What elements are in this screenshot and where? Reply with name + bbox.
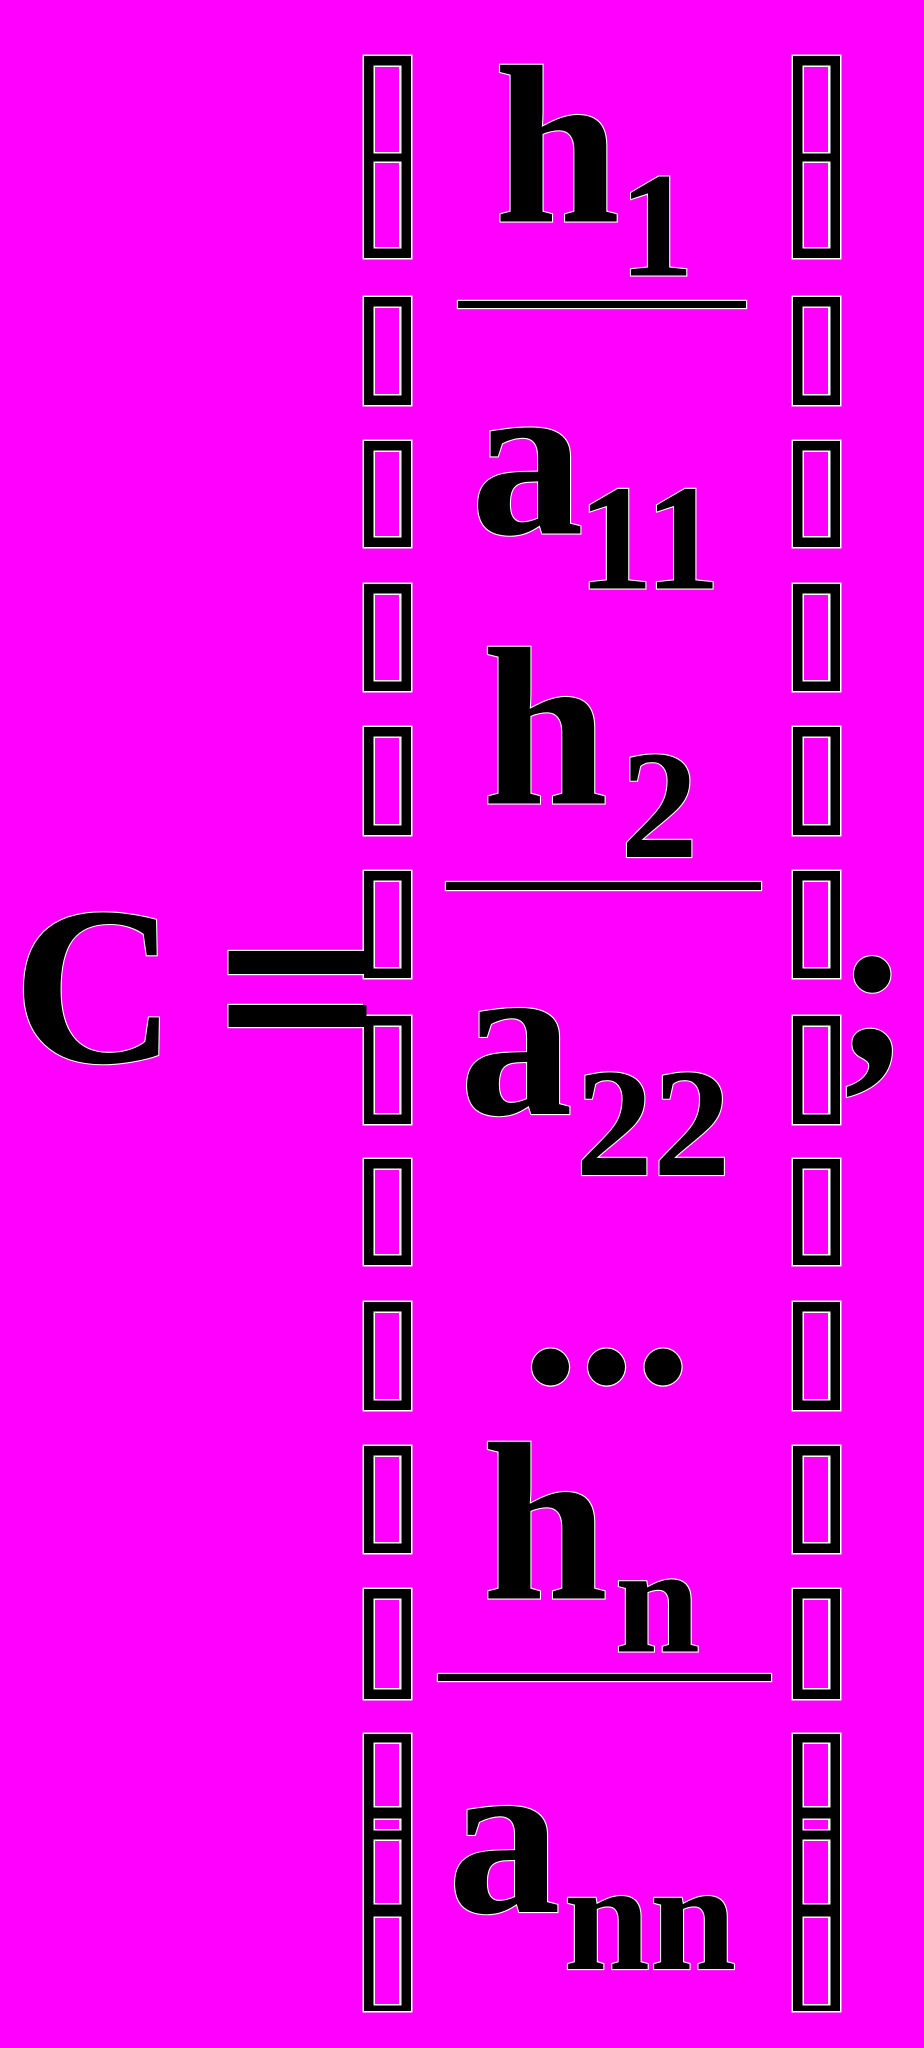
right bracket tofu box 10 (792, 1301, 842, 1412)
left bracket tofu boxes 1-2 (double) (363, 55, 413, 260)
svg-text:C: C (13, 861, 176, 1111)
left bracket bottom tofu stack (363, 1733, 413, 2013)
right bracket tofu box 4 (792, 440, 842, 549)
svg-text:2: 2 (621, 719, 699, 891)
ellipsis dot 2 (587, 1347, 626, 1386)
left bracket tofu box 6 (363, 726, 413, 837)
left bracket tofu box 8 (363, 1015, 413, 1126)
right bracket tofu box 7 (792, 870, 842, 980)
svg-text:a: a (471, 333, 584, 583)
svg-text:h: h (482, 1398, 608, 1648)
right bracket bottom tofu stack (792, 1733, 842, 2013)
left bracket tofu box 3 (363, 296, 413, 407)
equals sign bottom bar (227, 1004, 366, 1028)
left bracket tofu box 4 (363, 440, 413, 549)
right bracket tofu box 6 (792, 726, 842, 837)
svg-text:nn: nn (564, 1831, 736, 2003)
fraction bar 2 (445, 881, 762, 891)
ellipsis dot 3 (643, 1347, 682, 1386)
svg-text:1: 1 (619, 143, 694, 309)
left bracket tofu box 5 (363, 583, 413, 693)
right bracket tofu box 3 (792, 296, 842, 407)
svg-text:22: 22 (576, 1037, 731, 1209)
left bracket tofu box 10 (363, 1301, 413, 1412)
left bracket tofu box 7 (363, 870, 413, 980)
right bracket tofu box 5 (792, 583, 842, 693)
left bracket tofu box 12 (363, 1588, 413, 1701)
right bracket tofu boxes 1-2 (double) (792, 55, 842, 260)
svg-text:a: a (460, 913, 573, 1163)
svg-text:a: a (448, 1711, 561, 1961)
svg-text:11: 11 (578, 454, 721, 622)
svg-text:h: h (482, 603, 608, 853)
right bracket tofu box 8 (792, 1015, 842, 1126)
fraction bar 3 (437, 1673, 772, 1682)
right bracket tofu box 9 (792, 1158, 842, 1267)
svg-text:n: n (615, 1517, 700, 1686)
left bracket tofu box 11 (363, 1445, 413, 1555)
right bracket tofu box 12 (792, 1588, 842, 1701)
svg-text:h: h (494, 21, 620, 271)
right bracket tofu box 11 (792, 1445, 842, 1555)
equals sign top bar (227, 950, 366, 975)
left bracket tofu box 9 (363, 1158, 413, 1267)
ellipsis dot 1 (531, 1347, 570, 1386)
fraction bar 1 (457, 300, 747, 309)
svg-text:;: ; (835, 861, 910, 1111)
